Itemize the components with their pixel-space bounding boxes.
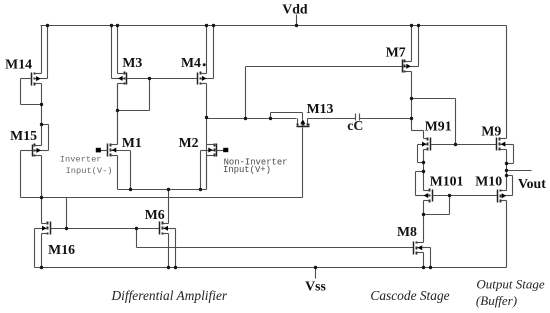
- svg-text:Vout: Vout: [518, 176, 546, 191]
- svg-text:cC: cC: [347, 118, 363, 133]
- svg-text:M9: M9: [481, 124, 501, 139]
- svg-text:M2: M2: [179, 135, 199, 150]
- svg-text:M15: M15: [10, 128, 37, 143]
- svg-text:M8: M8: [397, 224, 417, 239]
- svg-text:M16: M16: [48, 242, 75, 257]
- svg-text:Cascode Stage: Cascode Stage: [370, 288, 449, 303]
- svg-text:M14: M14: [5, 56, 32, 71]
- svg-text:M91: M91: [425, 119, 452, 134]
- svg-text:M13: M13: [307, 101, 334, 116]
- svg-text:M3: M3: [122, 55, 142, 70]
- svg-text:M101: M101: [430, 174, 464, 189]
- svg-text:Input(V-): Input(V-): [66, 166, 113, 176]
- svg-text:Differential Amplifier: Differential Amplifier: [110, 288, 227, 303]
- svg-text:Vss: Vss: [305, 279, 326, 294]
- svg-text:Input(V+): Input(V+): [223, 165, 271, 175]
- svg-text:M4: M4: [181, 55, 201, 70]
- svg-text:M7: M7: [386, 45, 406, 60]
- svg-text:(Buffer): (Buffer): [476, 293, 517, 308]
- svg-text:M1: M1: [122, 135, 142, 150]
- svg-text:M6: M6: [145, 207, 165, 222]
- svg-text:M10: M10: [475, 174, 502, 189]
- svg-text:Inverter: Inverter: [60, 154, 102, 164]
- svg-text:Vdd: Vdd: [282, 2, 308, 17]
- svg-text:Output Stage: Output Stage: [476, 277, 544, 292]
